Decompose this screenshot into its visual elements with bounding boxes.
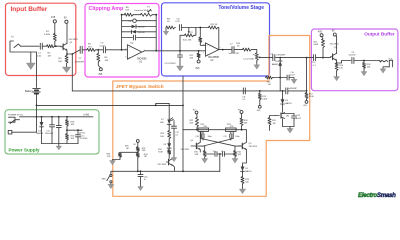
supply 9V flipflop left bbox=[195, 111, 198, 114]
node 4V5 divider bbox=[66, 127, 68, 134]
supply 9V input buffer bbox=[65, 20, 68, 23]
wire feedback to output node bbox=[218, 28, 220, 50]
svg-text:3: 3 bbox=[125, 57, 126, 59]
resistor R2 bbox=[47, 45, 56, 48]
wire jack to C1 bbox=[21, 45, 40, 47]
power supply ground rail bbox=[42, 143, 79, 145]
svg-text:1S1588: 1S1588 bbox=[138, 32, 146, 34]
svg-text:C1n: C1n bbox=[221, 151, 224, 153]
svg-text:2: 2 bbox=[125, 48, 126, 50]
wire Q2 emitter bbox=[336, 60, 338, 63]
ground input jack bbox=[30, 52, 32, 63]
capacitor C13 0.047 shunt branch bbox=[280, 77, 286, 79]
potentiometer P2 Tone 20K bbox=[181, 27, 208, 29]
wire Q1 emitter down bbox=[66, 50, 68, 55]
ground C13 branch bbox=[291, 79, 297, 83]
resistor R12 10K bias bbox=[198, 50, 200, 52]
cross-coupling capacitor C11b 100p right bbox=[230, 134, 232, 138]
transistor Q4 flipflop left bbox=[195, 143, 197, 149]
svg-text:10K: 10K bbox=[71, 124, 75, 126]
svg-text:C10: C10 bbox=[195, 136, 198, 138]
svg-text:MA150: MA150 bbox=[285, 102, 292, 105]
op-amp U2 JRC4558 bbox=[206, 43, 219, 56]
capacitor C13 47uF/16V bbox=[77, 129, 79, 131]
LED D7 bbox=[168, 103, 170, 118]
capacitor C15b trigger right bbox=[217, 153, 222, 155]
ground right base resistor bbox=[234, 158, 236, 159]
svg-text:2SC1815: 2SC1815 bbox=[158, 164, 168, 166]
wire feedback to inverting input bbox=[199, 28, 201, 38]
svg-text:10K: 10K bbox=[58, 61, 62, 63]
wire JFET tap down to bypass rail bbox=[306, 58, 308, 91]
wire U2 output bbox=[218, 49, 232, 51]
svg-text:−: − bbox=[207, 43, 209, 47]
wire tone bias down through rails bbox=[182, 105, 184, 107]
svg-text:POWER 9V DC: POWER 9V DC bbox=[8, 115, 24, 117]
capacitor C1 0.02 bbox=[40, 43, 42, 49]
svg-text:(4.5V): (4.5V) bbox=[79, 132, 85, 134]
svg-text:240K: 240K bbox=[313, 44, 318, 46]
ground below R25 bbox=[239, 189, 245, 194]
block box: JFET Bypass Switch bbox=[113, 36, 310, 197]
svg-text:6: 6 bbox=[203, 44, 204, 46]
svg-text:1M: 1M bbox=[144, 156, 147, 158]
trigger strap left end bbox=[137, 170, 139, 172]
svg-text:5: 5 bbox=[203, 53, 204, 55]
svg-text:1uF/50V NP: 1uF/50V NP bbox=[229, 53, 240, 55]
flipflop collector rail bbox=[183, 129, 246, 131]
footswitch SW1 momentary bbox=[110, 171, 112, 174]
svg-text:Battery: Battery bbox=[25, 90, 33, 93]
resistor R31 56K switch bbox=[137, 142, 139, 146]
resistor R9 1K bbox=[166, 26, 176, 29]
svg-text:Clipping Amp: Clipping Amp bbox=[89, 6, 125, 12]
resistor R30 750R bbox=[168, 148, 170, 149]
svg-text:JFET Bypass Switch: JFET Bypass Switch bbox=[116, 84, 164, 90]
wire Q9 emitter to trigger strap bbox=[173, 165, 175, 171]
svg-text:47K: 47K bbox=[230, 126, 234, 128]
supply 9V output buffer bbox=[333, 33, 336, 36]
svg-text:10K: 10K bbox=[71, 138, 75, 140]
block box: Power Supply bbox=[5, 110, 99, 154]
svg-text:C11: C11 bbox=[223, 136, 226, 138]
capacitor C16 1u trigger bbox=[140, 170, 142, 172]
cross wire left collector to right base bbox=[201, 131, 242, 146]
wire trigger center drop bbox=[219, 153, 221, 155]
supply 4V5 clipping bias bbox=[99, 68, 102, 71]
svg-text:510K: 510K bbox=[309, 96, 314, 98]
svg-text:(+9V): (+9V) bbox=[84, 114, 90, 116]
ground below P3 bbox=[256, 61, 258, 65]
ground left base resistor bbox=[204, 158, 206, 159]
resistor R4 4K7 bbox=[87, 48, 97, 51]
wire LED feed from 9V rail bbox=[155, 105, 157, 107]
svg-text:56K: 56K bbox=[244, 123, 248, 125]
transistor Q5 flipflop right bbox=[241, 143, 243, 149]
resistor R16 100R bbox=[335, 63, 338, 72]
supply 4V5 switch bias bbox=[258, 105, 261, 108]
svg-text:+: + bbox=[129, 55, 131, 59]
svg-text:MA150: MA150 bbox=[37, 132, 44, 135]
svg-text:Input Buffer: Input Buffer bbox=[11, 6, 48, 13]
resistor R3 10K bbox=[65, 56, 68, 65]
svg-text:750R: 750R bbox=[158, 152, 163, 154]
resistor R13 feedback tone bbox=[209, 26, 219, 29]
wire U1 output bbox=[143, 51, 162, 52]
svg-text:10u/50V: 10u/50V bbox=[349, 55, 357, 57]
transistor Q9 switch driver bbox=[168, 155, 170, 158]
ground below C17 bbox=[171, 158, 177, 162]
resistor R18 10K pulldown bbox=[363, 60, 365, 62]
svg-text:Level 100K: Level 100K bbox=[244, 58, 255, 60]
wire buffer out to clipping bbox=[82, 49, 87, 51]
svg-text:4V5: 4V5 bbox=[98, 74, 103, 76]
transistor Q1 2SC1815 bbox=[62, 44, 64, 50]
svg-text:MA150: MA150 bbox=[245, 170, 252, 173]
svg-text:100u/16V: 100u/16V bbox=[45, 133, 54, 135]
capacitor C12 0.1 bbox=[58, 116, 60, 118]
ground below C5 bbox=[177, 66, 184, 71]
block box: Clipping Amp bbox=[85, 4, 159, 78]
trigger strap bbox=[111, 170, 220, 172]
svg-text:−: − bbox=[129, 45, 131, 49]
svg-text:10K: 10K bbox=[245, 182, 249, 184]
diode D2 1S1588 bbox=[122, 31, 132, 33]
capacitor C4 51pF branch bbox=[122, 20, 133, 22]
potentiometer P1 Distortion 500K bbox=[134, 14, 141, 16]
svg-text:10K: 10K bbox=[367, 67, 371, 69]
wire 4V5 output bbox=[67, 129, 82, 131]
wire jack sleeve to ground bbox=[14, 51, 37, 53]
ground below SW1 bbox=[110, 183, 112, 184]
svg-text:0.047: 0.047 bbox=[296, 118, 302, 120]
potentiometer P3 Level 100K bbox=[252, 50, 257, 53]
capacitor C21 0.047 bbox=[293, 114, 295, 116]
bypass signal rail bbox=[72, 90, 285, 92]
svg-text:C5 0.22/50V: C5 0.22/50V bbox=[165, 63, 177, 65]
svg-text:4V5: 4V5 bbox=[51, 16, 56, 19]
svg-text:+: + bbox=[207, 52, 209, 56]
svg-text:ElectroSmash: ElectroSmash bbox=[358, 192, 396, 199]
wire clipping to tone stage bbox=[162, 50, 206, 52]
wire C1 to R2 bbox=[42, 45, 46, 47]
resistor R11 on inverting leg bbox=[199, 37, 202, 43]
wire 9V rail battery to flipflop bbox=[37, 104, 184, 106]
resistor R22 47K box bbox=[198, 128, 208, 131]
svg-text:Output Buffer: Output Buffer bbox=[364, 32, 395, 37]
supply 4V5 tone bias bbox=[197, 60, 200, 63]
svg-text:9V: 9V bbox=[64, 17, 67, 20]
resistor R14 1K bbox=[243, 48, 253, 51]
ground below C16 bbox=[138, 187, 144, 191]
resistor R1 0.51M bbox=[54, 42, 56, 46]
resistor R33 56K right base bbox=[234, 146, 236, 150]
svg-text:0.047: 0.047 bbox=[290, 74, 295, 76]
resistor R18 10K upper divider bbox=[66, 116, 68, 118]
svg-text:10K: 10K bbox=[160, 136, 164, 138]
wiper P3 to output bbox=[258, 56, 260, 58]
svg-text:47K: 47K bbox=[203, 126, 207, 128]
supply 4V5 output buffer bbox=[320, 34, 323, 37]
svg-text:1uF/50/NP: 1uF/50/NP bbox=[75, 62, 85, 64]
wire emitter to C2 bbox=[67, 50, 80, 54]
ground below R18 bbox=[361, 72, 367, 76]
svg-text:9V: 9V bbox=[332, 31, 335, 33]
resistor R19 510K to 4V5 bbox=[259, 91, 261, 93]
capacitor C5 0.22/50V bbox=[179, 50, 181, 52]
power rail +9V bbox=[20, 116, 94, 118]
wire battery to input buffer bbox=[36, 52, 38, 88]
capacitor C10 0.1 output bbox=[314, 55, 316, 61]
resistor R23 47K box bbox=[226, 128, 237, 131]
resistor R24 56K bbox=[240, 118, 243, 127]
ground below R3 bbox=[66, 64, 68, 67]
svg-text:Power Supply: Power Supply bbox=[9, 148, 40, 153]
resistor R19 10K lower divider bbox=[66, 134, 69, 141]
resistor R6 51K feedback bbox=[122, 14, 125, 16]
feedback right rail clipping bbox=[153, 15, 156, 51]
diode D8 series bbox=[168, 140, 170, 144]
DC jack ring pin bbox=[8, 130, 12, 134]
wire buffer output down to bypass rail bbox=[71, 53, 73, 55]
JFET Q7 switch bbox=[282, 105, 284, 113]
capacitor C8 0.22 bbox=[179, 25, 181, 31]
wire Q5 emitter to diode leg bbox=[243, 150, 247, 166]
svg-text:1S1588: 1S1588 bbox=[138, 27, 146, 29]
svg-text:100p: 100p bbox=[235, 136, 239, 138]
supply 9V switch section bbox=[136, 140, 139, 143]
block box: Output Buffer bbox=[311, 29, 398, 91]
capacitor C14 1uF/50/NP level to out bbox=[273, 55, 275, 61]
svg-text:2SC1815: 2SC1815 bbox=[181, 149, 191, 151]
op-amp U1 JRC4558 bbox=[127, 45, 141, 59]
wire Q2 collector to 9V bbox=[335, 36, 337, 53]
capacitor C17 0.1 left bbox=[173, 121, 175, 127]
svg-text:JRC4558P: JRC4558P bbox=[208, 57, 220, 59]
svg-text:0.047: 0.047 bbox=[100, 45, 106, 47]
ground R9 left bbox=[165, 28, 167, 32]
svg-text:R13 1K: R13 1K bbox=[211, 24, 219, 26]
svg-text:0.51M: 0.51M bbox=[44, 34, 50, 36]
resistor R25 10K bbox=[242, 172, 244, 176]
capacitor C3 0.047 bbox=[103, 47, 105, 53]
DC power jack bbox=[9, 117, 16, 122]
ground JFET section bbox=[283, 126, 295, 128]
svg-text:1M: 1M bbox=[126, 148, 129, 150]
resistor R5 10K to 4V5 bbox=[97, 50, 99, 54]
resistor R30 1M shunt branch bbox=[266, 76, 274, 79]
capacitor C14b trigger left bbox=[205, 153, 214, 155]
svg-text:100p: 100p bbox=[208, 136, 212, 138]
svg-text:2SC1815: 2SC1815 bbox=[249, 146, 258, 148]
wire emitter to C9 out bbox=[337, 61, 351, 64]
svg-text:510K: 510K bbox=[262, 98, 267, 100]
svg-text:JRC4558: JRC4558 bbox=[137, 59, 147, 61]
svg-text:56K: 56K bbox=[190, 122, 194, 124]
svg-text:7: 7 bbox=[220, 47, 221, 49]
resistor R21 56K bbox=[196, 114, 198, 118]
wire Q1 collector to 9V bbox=[66, 23, 68, 43]
cross wire right collector to left base bbox=[196, 131, 233, 146]
svg-text:1M: 1M bbox=[48, 55, 51, 57]
wire C14 to output buffer bbox=[275, 57, 313, 59]
resistor R33 22K branch bbox=[120, 151, 138, 153]
diode D6 MA150 bbox=[41, 116, 43, 118]
diode D5 MA150 bbox=[242, 165, 244, 172]
svg-text:C1n: C1n bbox=[213, 151, 216, 153]
capacitor C15 1uF/50/NP bypass bbox=[286, 88, 288, 94]
diode D1 1S1588 bbox=[122, 26, 132, 28]
resistor R20 10K LED bbox=[168, 124, 170, 130]
node base Q1 bbox=[55, 45, 57, 47]
svg-text:1u: 1u bbox=[144, 179, 146, 181]
diode D3 BAW62 shunt bbox=[279, 57, 281, 59]
svg-text:Distortion 500K Log: Distortion 500K Log bbox=[135, 9, 153, 12]
resistor R17 510K gate bias bbox=[305, 93, 308, 100]
supply 4V5 input buffer bbox=[53, 20, 56, 23]
svg-text:1uF/50/NP: 1uF/50/NP bbox=[288, 88, 298, 90]
capacitor C11 0.1 on bypass rail bbox=[243, 88, 245, 94]
svg-text:2SC1815: 2SC1815 bbox=[69, 39, 79, 41]
svg-text:10K: 10K bbox=[190, 57, 194, 59]
capacitor C2 1uF/50/NP bbox=[80, 46, 82, 53]
svg-text:4V5: 4V5 bbox=[195, 68, 200, 70]
cross-coupling capacitor C10 100p left bbox=[202, 134, 204, 138]
svg-text:Tone/Volume Stage: Tone/Volume Stage bbox=[218, 5, 264, 11]
svg-text:1uF/50/NP: 1uF/50/NP bbox=[276, 55, 286, 57]
block box: Tone/Volume Stage bbox=[162, 3, 270, 76]
block box: Input Buffer bbox=[6, 3, 76, 75]
ground below R33 bbox=[113, 158, 121, 161]
supply 9V flipflop right bbox=[240, 111, 243, 114]
svg-text:1M: 1M bbox=[268, 84, 271, 86]
resistor R34 1M switch bbox=[137, 151, 139, 153]
resistor R15 10K base bbox=[322, 37, 323, 39]
svg-text:51K: 51K bbox=[125, 10, 129, 12]
svg-text:4V5: 4V5 bbox=[318, 31, 323, 33]
wire battery minus to rail and DC ring pin bbox=[12, 94, 37, 133]
svg-text:BAW62: BAW62 bbox=[272, 63, 278, 66]
resistor R29 1M bbox=[270, 116, 276, 118]
resistor R32 56K left base bbox=[203, 146, 205, 150]
diode D4 MA150 right bbox=[282, 90, 284, 92]
svg-text:Tone 20K: Tone 20K bbox=[183, 39, 192, 41]
svg-text:LED: LED bbox=[160, 122, 165, 124]
svg-text:47u/16V: 47u/16V bbox=[80, 138, 88, 140]
ground power supply bbox=[58, 144, 60, 147]
node R4 C3 bbox=[97, 49, 99, 51]
capacitor C7 1uF/50V NP bbox=[232, 47, 234, 53]
ground below R16 bbox=[334, 77, 340, 81]
svg-text:2SC1815: 2SC1815 bbox=[330, 44, 340, 46]
capacitor C11 100uF/16V bbox=[51, 116, 53, 118]
supply 4V5 below R17 bbox=[305, 101, 308, 104]
svg-text:1M: 1M bbox=[273, 123, 276, 125]
feedback left rail clipping bbox=[121, 15, 123, 50]
transistor Q2 2SC1815 bbox=[332, 54, 334, 60]
ground output jack bbox=[383, 67, 389, 69]
capacitor C9 10uF output bbox=[352, 58, 354, 64]
svg-text:10K: 10K bbox=[105, 60, 109, 62]
